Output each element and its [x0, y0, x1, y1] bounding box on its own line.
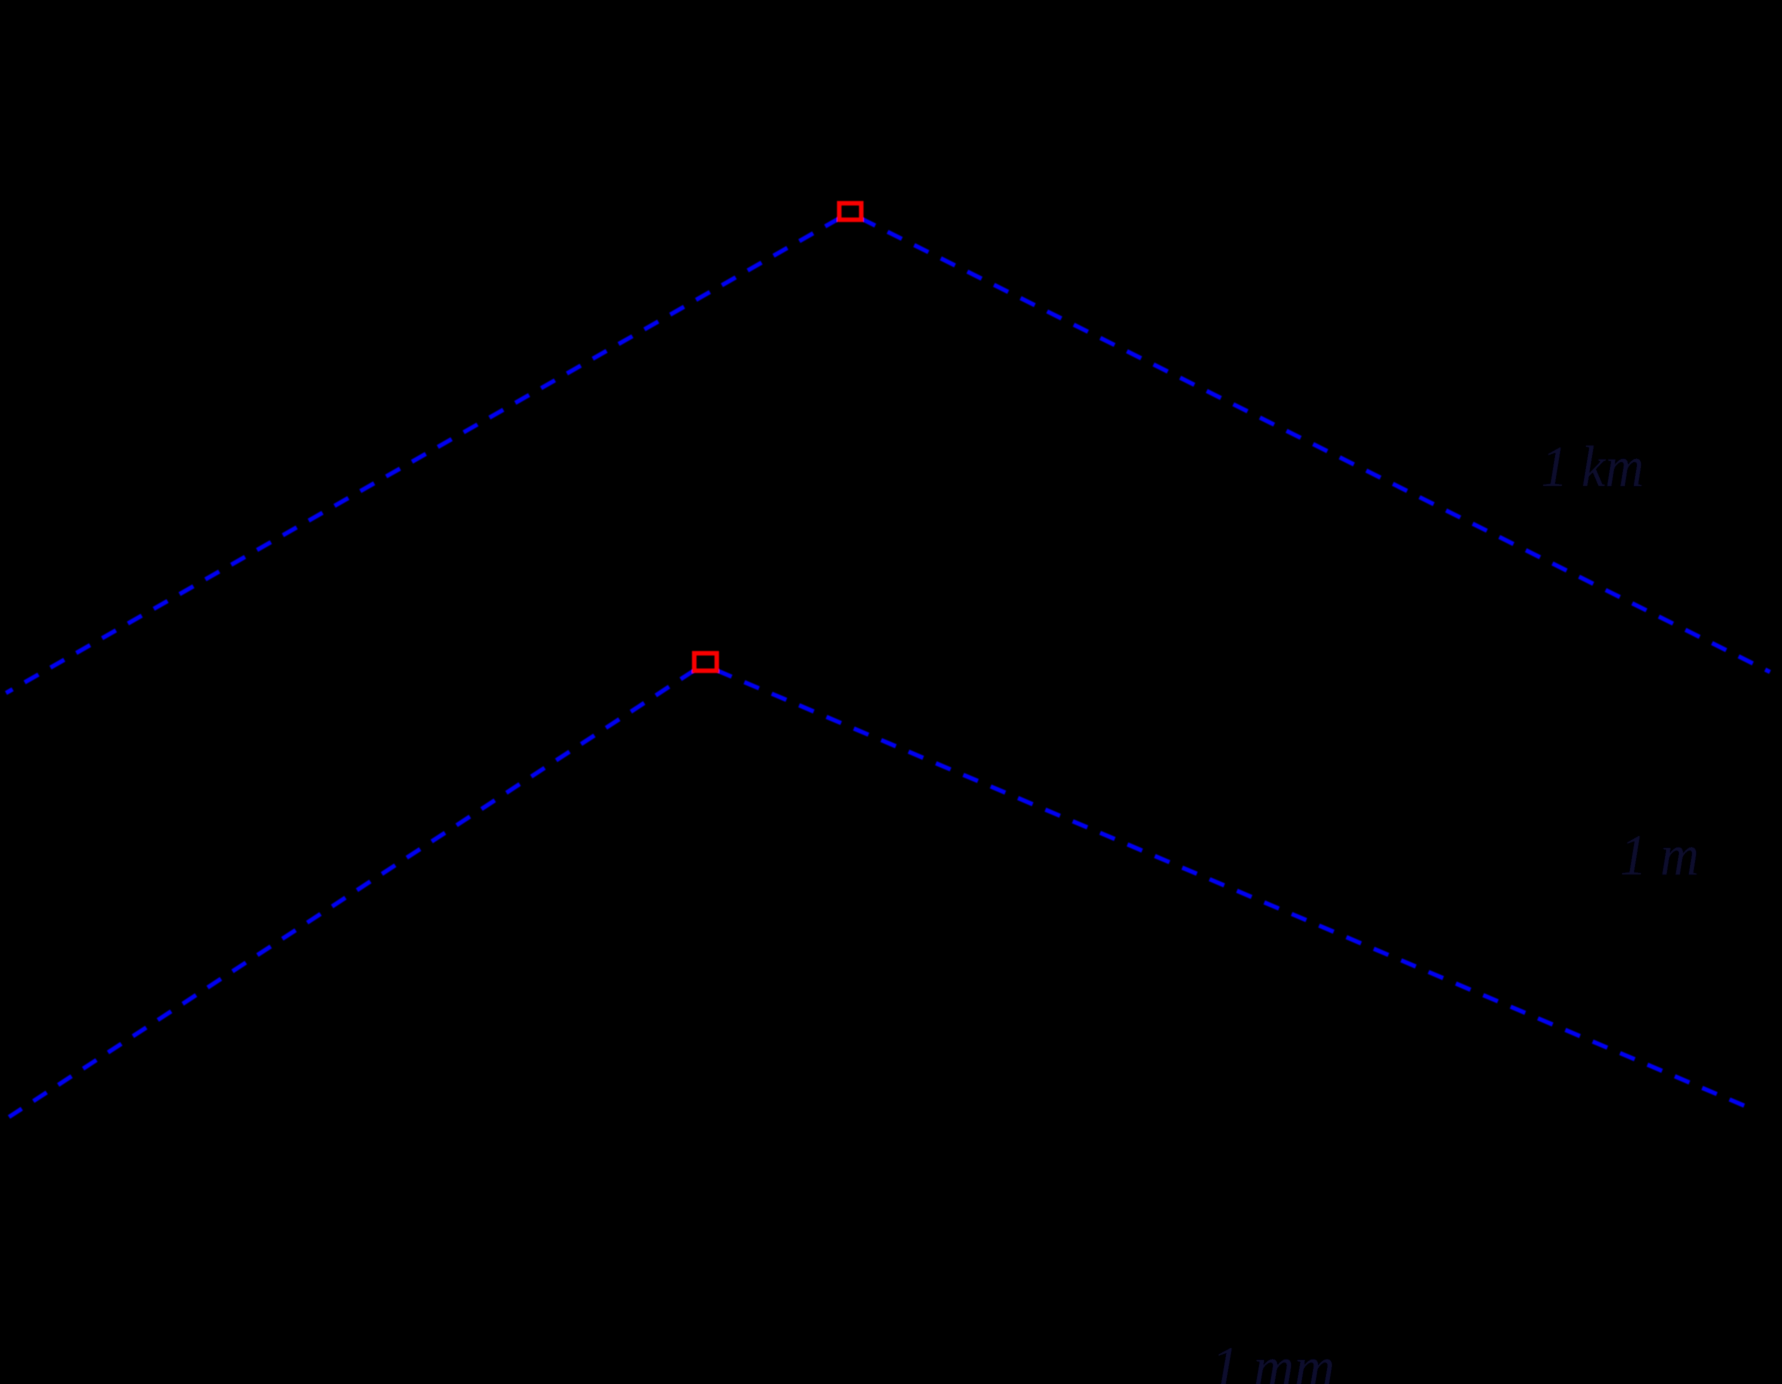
svg-text:1 mm: 1 mm: [1211, 1335, 1335, 1384]
wire: upper-left dashed ray: [6, 219, 839, 694]
svg-text:1 km: 1 km: [1541, 434, 1644, 499]
svg-text:1 m: 1 m: [1620, 823, 1699, 888]
node marker: lower red square: [694, 653, 717, 671]
node marker: upper red square: [839, 203, 861, 220]
wire: lower-left dashed ray: [9, 671, 694, 1118]
wire: upper-right dashed ray: [861, 219, 1770, 673]
wire: lower-right dashed ray: [717, 671, 1745, 1107]
